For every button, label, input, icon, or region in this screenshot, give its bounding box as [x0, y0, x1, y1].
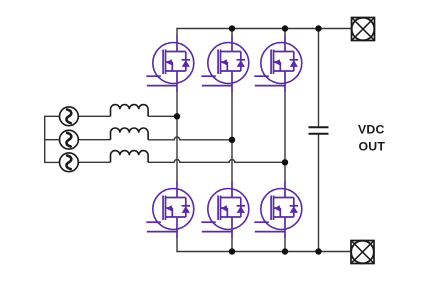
svg-text:OUT: OUT	[359, 139, 386, 153]
svg-text:VDC: VDC	[358, 123, 385, 137]
